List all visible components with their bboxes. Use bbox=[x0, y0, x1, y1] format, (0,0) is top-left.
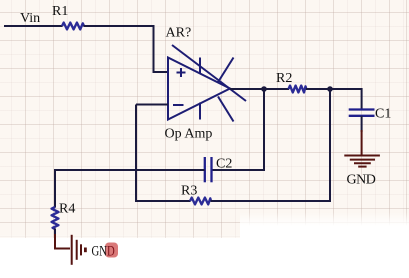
resistor R3 bbox=[190, 198, 211, 205]
svg-text:R1: R1 bbox=[52, 4, 68, 19]
wire down to R4 bbox=[54, 169, 56, 208]
svg-text:C1: C1 bbox=[375, 107, 391, 122]
capacitor C2 bbox=[205, 157, 212, 182]
svg-text:GND: GND bbox=[347, 173, 376, 188]
wire -input vertical down bbox=[135, 105, 137, 203]
capacitor C1 bbox=[349, 110, 375, 116]
wire R4 to ground maroon part bbox=[55, 234, 70, 249]
resistor R4 bbox=[52, 207, 59, 229]
op-amp bottom power pin bbox=[199, 103, 201, 120]
svg-text:GND: GND bbox=[92, 243, 115, 259]
op-amp triangle body bbox=[168, 58, 230, 120]
op-amp diagonal pin through apex (under AR?) bbox=[172, 45, 246, 101]
ground GND left earth symbol (rotated) bbox=[72, 235, 86, 265]
wire R2 to node B bbox=[306, 88, 330, 90]
op-amp lower-right diagonal pin bbox=[218, 97, 234, 122]
wire C2 left plate to left corner bbox=[54, 169, 205, 171]
wire R4 bottom navy part bbox=[54, 229, 56, 237]
wire Vin input segment bbox=[4, 25, 63, 27]
wire vertical down to +input bbox=[154, 26, 169, 72]
svg-text:R2: R2 bbox=[276, 71, 292, 86]
wire -input stub bbox=[136, 104, 168, 106]
ground GND right earth symbol bbox=[344, 156, 380, 167]
op-amp AR? bbox=[168, 45, 246, 122]
op-amp plus symbol bbox=[177, 68, 186, 77]
svg-text:AR?: AR? bbox=[166, 26, 192, 41]
wire node B to C1 corner bbox=[330, 89, 362, 110]
svg-text:C2: C2 bbox=[216, 157, 232, 172]
wire feedback vertical up to node B bbox=[329, 89, 331, 202]
op-amp top power pin bbox=[199, 58, 201, 74]
svg-text:Vin: Vin bbox=[20, 11, 40, 26]
wire op-amp output bbox=[230, 88, 264, 90]
wire C1 bottom navy part bbox=[361, 116, 363, 132]
wire corner to C2 right plate bbox=[212, 169, 266, 171]
junction node B dot bbox=[327, 86, 333, 92]
wire to R3 left bbox=[135, 200, 191, 202]
wire R3 right to corner bbox=[211, 200, 332, 202]
op-amp upper-right diagonal pin bbox=[218, 58, 234, 83]
resistor R2 bbox=[289, 86, 307, 93]
wire node A down to C2 level bbox=[263, 89, 265, 171]
wire node A to R2 bbox=[264, 88, 289, 90]
svg-text:R4: R4 bbox=[59, 202, 75, 217]
op-amp minus symbol bbox=[173, 104, 184, 106]
svg-text:Op Amp: Op Amp bbox=[165, 127, 213, 142]
resistor R1 bbox=[62, 23, 84, 30]
selection highlight blob on D bbox=[105, 243, 118, 258]
wire C1 to ground maroon part bbox=[361, 130, 363, 155]
junction node A dot bbox=[261, 86, 267, 92]
wire R1 to corner bbox=[84, 25, 155, 27]
svg-text:R3: R3 bbox=[181, 184, 197, 199]
